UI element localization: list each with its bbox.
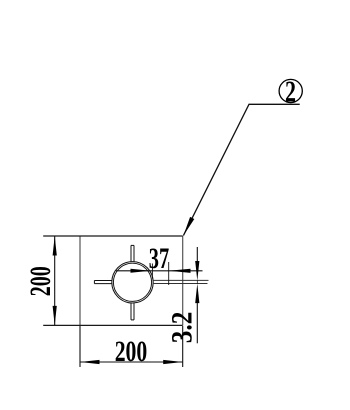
leader arrow (183, 217, 194, 236)
dimension 200 bottom: extension line left (79, 326, 81, 367)
hole: inner circle (113, 263, 151, 301)
svg-text:3.2: 3.2 (167, 312, 199, 344)
dimension 3.2: upper arrow (points down) (195, 261, 199, 281)
leader line (183, 104, 299, 235)
dimension 200 bottom: left arrow (80, 360, 100, 364)
dimension 37: left arrow (points right) (131, 269, 151, 273)
extension line top (with square top edge) (43, 235, 183, 237)
dimension 37: right arrow (points left) (169, 269, 191, 273)
svg-text:2: 2 (285, 74, 296, 109)
dimension 3.2: lower tail (196, 303, 198, 343)
slot arm top (131, 245, 134, 262)
slot arm left (94, 281, 112, 284)
dimension 3.2: connector (196, 280, 198, 284)
dimension 3.2: lower arrow (points up) (195, 284, 199, 304)
square plate outline (80, 236, 183, 325)
slot arm bottom (131, 303, 134, 320)
dimension 200 left: bottom arrow (53, 306, 57, 326)
dimension 37: extension line 2 (168, 262, 170, 285)
dimension 3.2: upper tail (196, 247, 198, 262)
dimension 37: extension line 1 (151, 264, 153, 279)
svg-text:200: 200 (25, 266, 57, 296)
dimension 37: dim line (116, 270, 203, 272)
dimension 200 left: top arrow (53, 236, 57, 256)
extension line bottom (with square bottom edge) (43, 324, 183, 326)
dimension 200 bottom: dim line (80, 361, 183, 363)
svg-text:37: 37 (149, 243, 169, 275)
slot arm right (153, 280, 209, 283)
dimension 200 bottom: extension line right (182, 326, 184, 367)
dimension 200 left: dim line (54, 236, 56, 325)
balloon circle (279, 79, 302, 102)
hole: outer circle (112, 262, 153, 303)
svg-text:200: 200 (115, 336, 148, 368)
dimension 200 bottom: right arrow (163, 360, 183, 364)
